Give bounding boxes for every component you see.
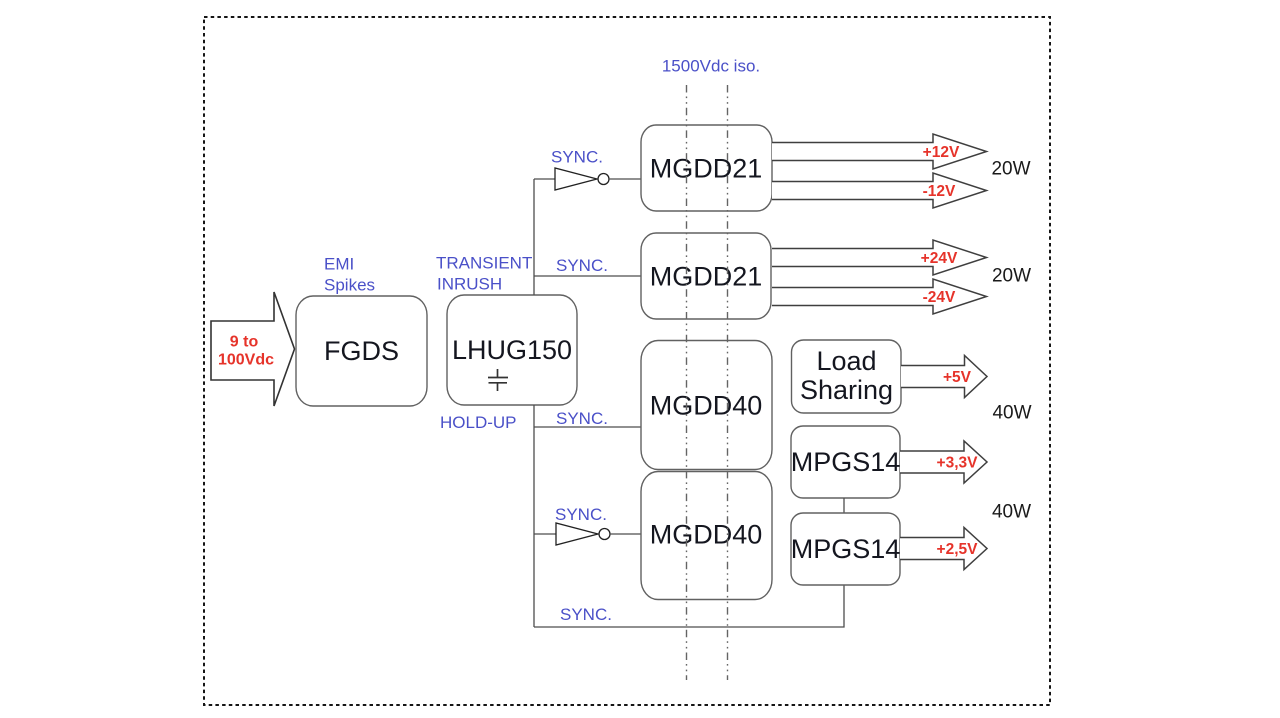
branch 2 wire SYNC to MGDD21#2	[534, 275, 641, 277]
svg-text:INRUSH: INRUSH	[437, 275, 502, 294]
label TRANSIENT INRUSH	[436, 254, 532, 294]
svg-text:9 to: 9 to	[230, 334, 259, 351]
block MPGS14 #1	[791, 426, 901, 498]
svg-text:MGDD21: MGDD21	[650, 154, 763, 184]
label EMI Spikes	[324, 255, 375, 295]
bottom SYNC wire to MPGS14#2	[534, 585, 844, 627]
svg-text:MGDD40: MGDD40	[650, 520, 763, 550]
svg-text:MPGS14: MPGS14	[791, 447, 901, 477]
isolation dash-dot line 2	[727, 85, 729, 680]
svg-text:20W: 20W	[992, 266, 1031, 287]
svg-text:MPGS14: MPGS14	[791, 534, 901, 564]
isolation dash-dot line 1	[686, 85, 688, 680]
svg-text:Sharing: Sharing	[800, 375, 893, 405]
bus vertical upper (LHUG top to first branch)	[533, 179, 535, 295]
svg-text:-24V: -24V	[923, 289, 956, 306]
svg-text:+24V: +24V	[921, 250, 958, 267]
wire inverter 1 to MGDD21#1	[609, 178, 641, 180]
svg-text:20W: 20W	[991, 159, 1030, 180]
svg-text:LHUG150: LHUG150	[452, 335, 572, 365]
svg-text:40W: 40W	[992, 403, 1031, 424]
svg-text:+3,3V: +3,3V	[937, 455, 979, 472]
svg-text:+12V: +12V	[923, 144, 960, 161]
output arrow -24V	[772, 279, 987, 314]
svg-text:100Vdc: 100Vdc	[218, 352, 274, 369]
output arrow -12V	[772, 173, 987, 208]
output arrow +12V	[772, 134, 987, 169]
svg-text:EMI: EMI	[324, 255, 354, 274]
block MGDD40 #2	[641, 472, 772, 600]
svg-text:1500Vdc iso.: 1500Vdc iso.	[662, 57, 760, 76]
inverter 1	[555, 168, 609, 190]
block MGDD40 #1	[641, 341, 772, 470]
svg-text:MGDD40: MGDD40	[650, 391, 763, 421]
capacitor symbol in LHUG150	[488, 369, 508, 391]
block Load Sharing	[792, 340, 902, 413]
svg-text:+2,5V: +2,5V	[937, 541, 979, 558]
svg-text:SYNC.: SYNC.	[560, 605, 612, 624]
inverter 2	[556, 523, 610, 545]
wire inverter 2 to MGDD40#2	[610, 533, 641, 535]
output arrow +2,5V	[900, 528, 987, 570]
svg-text:Load: Load	[816, 346, 876, 376]
svg-text:SYNC.: SYNC.	[555, 505, 607, 524]
svg-text:40W: 40W	[992, 502, 1031, 523]
output arrow +3,3V	[900, 441, 987, 483]
branch 1 wire to inverter	[534, 178, 555, 180]
svg-text:-12V: -12V	[923, 183, 956, 200]
block MPGS14 #2	[791, 513, 901, 585]
block FGDS	[296, 296, 427, 406]
svg-text:Spikes: Spikes	[324, 276, 375, 295]
svg-text:HOLD-UP: HOLD-UP	[440, 413, 517, 432]
output arrow +5V	[901, 356, 987, 398]
branch 4 wire to inverter 2	[534, 533, 556, 535]
block MGDD21 #1	[641, 125, 772, 211]
input arrow 9 to 100Vdc	[211, 292, 295, 406]
svg-text:+5V: +5V	[943, 369, 972, 386]
svg-text:FGDS: FGDS	[324, 336, 399, 366]
dashed border frame	[204, 17, 1050, 705]
svg-text:TRANSIENT: TRANSIENT	[436, 254, 532, 273]
branch 3 wire SYNC to MGDD40#1	[534, 426, 641, 428]
output arrow +24V	[772, 240, 987, 275]
block LHUG150	[447, 295, 577, 405]
svg-text:SYNC.: SYNC.	[551, 148, 603, 167]
bus vertical lower (LHUG bottom to bottom sync line)	[533, 405, 535, 627]
svg-text:SYNC.: SYNC.	[556, 409, 608, 428]
svg-text:MGDD21: MGDD21	[650, 262, 763, 292]
wire MPGS14#1 to MPGS14#2	[843, 498, 845, 513]
block MGDD21 #2	[641, 233, 771, 319]
svg-text:SYNC.: SYNC.	[556, 256, 608, 275]
